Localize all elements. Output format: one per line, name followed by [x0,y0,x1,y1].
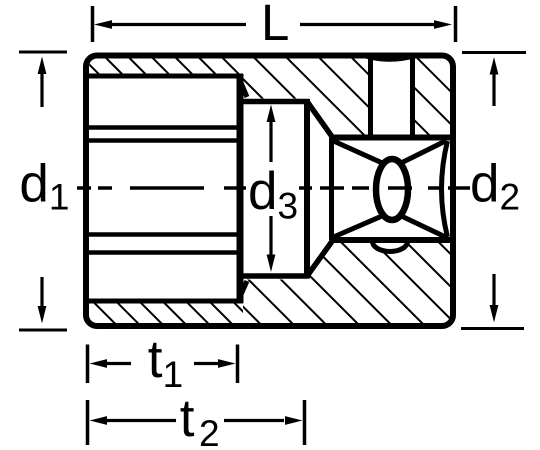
t2 right tick [303,400,307,445]
t2 right arrow [224,419,284,422]
hex recess inner line 2 [89,138,237,143]
square drive top line [332,135,453,141]
t1 left tick [86,345,90,384]
dimension L left tick [91,6,95,42]
top slot right vertical [410,57,415,135]
bottom hatch band [89,304,243,325]
hex recess bottom line [89,299,243,304]
drive opening arc [442,141,448,237]
hex recess inner line 4 [89,250,237,255]
top hatch band [89,58,243,75]
dimension L right line [300,23,436,26]
svg-text:L: L [261,0,289,51]
spring ball detent bump [373,242,408,252]
top edge dip [364,56,416,60]
ball hole ellipse [376,159,408,220]
d1 down arrow [40,277,43,309]
hex recess inner line 1 [89,125,237,130]
t1 right tick [236,345,240,384]
t1 right arrow [194,362,221,365]
hatch regions [89,58,452,324]
dimension L left arrowhead [94,20,112,29]
d3 down arrow [269,216,272,257]
lower hatch region [243,243,452,324]
dimension L right tick [454,6,458,42]
square drive diagonal TL [334,141,390,166]
d3 bore top line [237,99,307,105]
t1 left arrow [104,362,131,365]
bottom chamfer at wall [239,281,247,299]
center line [77,186,470,190]
d2 up arrow [492,71,495,106]
cone bottom diagonal [306,240,333,278]
d3 bore bottom line [237,273,307,279]
d2 down arrow [492,274,495,306]
dimension L right arrowhead [434,20,452,29]
hex recess inner line 3 [89,232,237,237]
d3 bore right wall [304,99,310,279]
socket body outline [86,56,453,327]
d3 up arrow [269,119,272,162]
square drive bottom line [332,237,453,243]
upper right corner hatch region [413,58,452,135]
square drive diagonal BL [334,213,390,237]
square drive left wall [329,138,334,241]
top chamfer at wall [239,78,247,97]
square drive diagonal BR [395,213,446,237]
d3 label backing [249,164,299,220]
t2 left arrow [104,419,176,422]
d2 top extension line [462,51,526,54]
upper middle hatch region [243,58,369,135]
d2 bottom extension line [461,327,524,330]
d1 bottom extension line [19,329,67,332]
square drive diagonal TR [395,141,446,166]
top slot left vertical [368,57,373,135]
t2 left tick [86,400,90,445]
wall between hex recess and d3 bore [237,74,244,303]
hex recess top line [89,74,243,79]
dimension L left line [110,23,246,26]
d1 up arrow [40,71,43,107]
d1 top extension line [19,51,67,54]
cone top diagonal [306,100,333,138]
